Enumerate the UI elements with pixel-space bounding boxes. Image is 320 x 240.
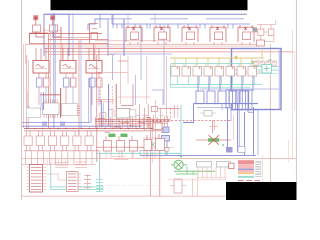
wire yellow drop U45 <box>229 58 231 67</box>
page right border <box>295 0 297 200</box>
wire VCC rail top y46 <box>45 45 259 47</box>
driver cell Q13 box <box>130 141 138 152</box>
label text bottom left <box>55 162 68 164</box>
bus ribbon line 3 <box>232 90 234 109</box>
wire mesh drop 10 <box>127 113 129 128</box>
wire teal inner y70 <box>250 69 279 71</box>
driver cell U5 frame <box>210 26 226 28</box>
wire mesh drop 8 <box>118 108 120 128</box>
pin dot U40 <box>177 67 179 69</box>
wire pale y147 <box>140 147 174 149</box>
wire rail y158 <box>22 157 296 159</box>
wire teal y63 <box>171 63 258 65</box>
component box Q20 <box>253 28 258 33</box>
wire mesh stub 6 <box>143 115 149 117</box>
wire j1 to j2 <box>46 174 67 180</box>
component box U4 <box>187 32 195 40</box>
driver cell Q6 pins <box>37 131 39 136</box>
wire dotted pink y185 <box>104 185 158 187</box>
bus ribbon line 1 <box>225 90 227 109</box>
wire yellow drop U42 <box>196 58 198 67</box>
wire loop h37 <box>52 37 89 39</box>
connector box J12 <box>218 91 226 104</box>
wire mesh drop 1 <box>95 117 97 128</box>
wire mesh drop 18 <box>153 115 155 128</box>
bus red y131 <box>24 130 168 132</box>
sheet edge pale x73 <box>72 13 74 52</box>
bus blue y155 <box>140 154 256 156</box>
bus blue staircase segments <box>96 18 132 20</box>
wire bus drop 8 <box>177 24 179 29</box>
wire bus drop 12 <box>227 24 229 29</box>
wire teal x100 vertical <box>99 153 101 179</box>
wire mesh drop 15 <box>143 117 145 128</box>
wire red verticals x174 <box>173 105 175 118</box>
logic gate U42 <box>193 67 202 77</box>
component box U5 <box>215 32 223 40</box>
wire cell U5 bottom <box>213 42 215 45</box>
box blue B1 partial <box>140 150 166 155</box>
wire rail y196 <box>22 195 226 197</box>
wire drop rail 9 <box>73 151 75 165</box>
wire teal tick U46 <box>238 64 240 67</box>
relay box small gray <box>204 111 212 117</box>
wire teal drop U41 <box>188 76 190 85</box>
component box U6 <box>243 32 251 40</box>
wire yellow drop U44 <box>218 58 220 67</box>
yellow diamond node <box>234 55 239 60</box>
motor M1 circle <box>174 160 183 169</box>
relay K3 box <box>86 61 102 74</box>
relay K1 pins <box>35 48 37 60</box>
legend swatch white <box>238 174 254 176</box>
pin dot U46 <box>243 67 245 69</box>
resistor R2 <box>64 78 70 87</box>
wire mesh drop 2 <box>98 113 100 128</box>
bus ribbon line 7 <box>245 90 247 109</box>
wire blue x101 long <box>100 100 102 127</box>
wire mesh drop 12 <box>132 117 134 128</box>
wire pale y179 <box>168 179 226 181</box>
wire dashed net v171 <box>170 108 172 120</box>
wire teal tick U42 <box>194 64 196 67</box>
bus ribbon line 9 <box>251 90 253 109</box>
bus blue y103 <box>194 103 259 105</box>
sheet edge blue x54 <box>53 13 55 128</box>
wire loop h30 <box>45 30 63 32</box>
driver cell U6 frame <box>238 26 254 28</box>
wire vertical net x294 <box>294 52 296 110</box>
wire drop rail 3 <box>37 151 39 165</box>
red rect left <box>30 33 49 43</box>
wire blue drop 5 <box>241 76 243 91</box>
wire net h72 <box>97 71 128 73</box>
relay K2 coil <box>63 65 71 68</box>
wire VCC rail top y44 <box>26 43 258 45</box>
driver cell Q5 box <box>24 136 32 146</box>
bus blue y126 <box>22 125 142 127</box>
cell group right x144-168 <box>144 140 152 151</box>
wire teal drop U44 <box>221 76 223 85</box>
wire cell C2 drops <box>65 73 67 78</box>
wire mesh extra h segs <box>98 118 105 120</box>
wire teal h186 <box>51 186 104 188</box>
wire drop rail r4 <box>132 151 134 158</box>
wire cell U4 bottom <box>185 42 187 45</box>
sheet block S3 outline <box>232 49 282 110</box>
wire teal x181 vertical <box>180 105 182 157</box>
ic U6 <box>62 104 78 116</box>
wire red edge x60 <box>60 88 62 118</box>
wire net h97 <box>116 96 150 98</box>
transistor pair box Q21 <box>258 29 264 36</box>
wire net x97 <box>96 55 98 162</box>
green plus mark <box>251 61 254 64</box>
wire blue x103 <box>102 103 104 127</box>
component box R30 <box>174 179 182 193</box>
ic U6 pins <box>78 105 81 107</box>
green dash mark <box>269 59 272 61</box>
wire teal bottom run <box>50 163 52 190</box>
wire blue drop 4 <box>230 76 232 91</box>
legend caption marks <box>238 180 244 182</box>
wire teal left riser <box>169 64 171 87</box>
wire cell U3 bottom <box>157 42 159 45</box>
wire vertical pair x61 <box>60 44 62 61</box>
power flag F1 <box>33 15 38 20</box>
redaction bar top <box>51 0 248 10</box>
driver cell U2 frame <box>126 26 142 28</box>
wire drop rail 5 <box>49 151 51 165</box>
pin marks U4 <box>189 27 191 30</box>
wire vertical net x288 <box>287 140 289 162</box>
wire red right stub h108 <box>152 107 180 109</box>
wire teal tick U40 <box>172 64 174 67</box>
wire net x128 <box>127 56 129 84</box>
wire vertical net x150 <box>149 118 151 196</box>
wire blue x244 <box>244 112 246 155</box>
wire blue x237 long <box>237 103 239 152</box>
driver cell Q9 box <box>73 136 81 146</box>
green dot net <box>222 144 224 146</box>
wire crystal arms <box>196 139 208 141</box>
wire net x113 blue <box>112 55 114 80</box>
wire teal drop U42 <box>199 76 201 85</box>
bus yellow y58 <box>170 57 264 59</box>
component red mini A <box>233 70 238 74</box>
wire blue drop 3 <box>219 76 221 91</box>
wire cell C3 drops <box>91 73 93 78</box>
wire teal drop U45 <box>232 76 234 85</box>
wire GND rail y48 <box>45 47 233 49</box>
wire blue drop 2 <box>208 76 210 91</box>
wire loop cell A1 <box>36 27 44 37</box>
legend swatch purple <box>238 169 254 170</box>
wire pink verticals bottom <box>192 178 194 196</box>
legend text column <box>255 160 261 162</box>
wire dashed x100 <box>99 80 101 104</box>
driver cell Q10 box <box>85 136 93 146</box>
wire relay row link <box>24 150 100 152</box>
wire bus drop 10 <box>199 24 201 29</box>
wire teal y153 <box>97 152 181 154</box>
legend swatch yellow <box>238 172 254 174</box>
connector J2 body <box>67 172 79 192</box>
logic gate U41 <box>182 67 191 77</box>
wire net x135 blue <box>135 75 137 105</box>
connector box J20 <box>238 147 245 153</box>
wire red corner left <box>27 92 30 107</box>
driver cell Q11 box <box>104 141 112 152</box>
wire green y174 <box>176 173 198 175</box>
driver cell Q7 pins <box>50 131 52 136</box>
relay K1 coil <box>36 65 44 68</box>
green cross small <box>151 143 156 147</box>
legend swatch rose <box>238 170 254 172</box>
wire teal tick U45 <box>227 64 229 67</box>
wire rail y54 <box>48 54 115 56</box>
junction dots mesh <box>98 121 99 122</box>
connector box J11 <box>207 91 215 104</box>
pin marks U2 <box>133 27 135 30</box>
wire teal tick U43 <box>205 64 207 67</box>
component box R31 <box>229 163 235 169</box>
component box blue B2 <box>163 127 169 133</box>
wire rail y40 <box>95 40 170 42</box>
label text cluster 2 <box>75 161 87 163</box>
driver cell Q12 box <box>117 141 125 152</box>
wire drop rail r2 <box>110 151 112 158</box>
bus ribbon line 5 <box>238 90 240 109</box>
wire red inner y72 <box>248 71 262 73</box>
wire bus drop 11 <box>204 24 206 29</box>
connector box J13 <box>229 91 237 104</box>
wire mesh drop 19 <box>156 117 158 128</box>
wire blue pair x88 <box>88 78 90 123</box>
ic U7 redraw <box>117 109 130 119</box>
wire red x116 <box>115 84 117 109</box>
wire dashed net h120 <box>152 119 231 121</box>
wire left column x27 <box>23 44 25 128</box>
resistor R10 <box>44 78 50 87</box>
crystal Y1 body <box>208 138 219 141</box>
wire mesh h125 <box>96 124 150 126</box>
pin marks U3 <box>161 27 163 30</box>
wire teal tick U47 <box>249 64 251 67</box>
wire teal right patch <box>252 60 258 75</box>
wire teal tick U41 <box>183 64 185 67</box>
wire h164 left <box>22 163 96 165</box>
wire mesh drop 22 <box>167 116 169 128</box>
wire blue thick x124 <box>123 19 125 56</box>
wire drop rail r5 <box>143 151 145 158</box>
logic gate U46 <box>237 67 246 77</box>
wire loop cell A2 <box>53 27 61 37</box>
ic U5 <box>43 103 60 115</box>
redaction bar bottom right <box>226 182 296 200</box>
label box L2 <box>217 162 231 168</box>
driver cell Q7 box <box>48 136 56 146</box>
wire mesh drop 13 <box>135 117 137 128</box>
bus red y128 <box>24 127 168 129</box>
resistor R11 <box>71 78 77 87</box>
wire vertical net x270 <box>269 44 271 182</box>
wire bus drop 2 <box>121 24 123 29</box>
wire rail y43 <box>30 43 109 45</box>
connector box J14 <box>240 91 248 104</box>
wire teal drop U47 <box>254 76 256 85</box>
wire red over U7 <box>96 99 114 101</box>
wire blue drop 6 <box>252 76 254 91</box>
sheet block S1 outline <box>44 14 69 56</box>
wire yellow drop U43 <box>207 58 209 67</box>
wire teal inner y66 <box>252 66 279 68</box>
wire mesh h123 <box>98 123 168 125</box>
ic U5 pins <box>43 115 45 119</box>
logic gate U44 <box>215 67 224 77</box>
wire blue x167 down <box>166 141 168 155</box>
pin dot U47 <box>254 67 256 69</box>
wire drop rail 7 <box>61 151 63 165</box>
wire net x163 <box>166 56 168 118</box>
bus blue top y14 <box>44 13 247 15</box>
sheet S3 right edge inner <box>278 50 280 109</box>
wire teal y87 <box>170 86 250 88</box>
wire net x120 <box>119 55 121 104</box>
wire mesh drop 11 <box>129 108 131 128</box>
component box U2 <box>131 32 139 40</box>
connector box J10 <box>196 91 204 104</box>
wire drop rail 11 <box>85 151 87 165</box>
label box L1 <box>197 162 212 168</box>
relay K3 pins <box>88 48 90 60</box>
driver cell Q5 pins <box>25 131 27 136</box>
bus yellow vertical x262 <box>261 49 263 59</box>
pin dot U41 <box>188 67 190 69</box>
wire top-left mesh h34 <box>30 33 103 35</box>
wire drop rail r6 <box>154 151 156 158</box>
driver cell Q13 pins <box>105 136 107 141</box>
driver cell Q8 box <box>61 136 69 146</box>
bus blue y89 <box>200 88 279 90</box>
wire yellow drop U41 <box>185 58 187 67</box>
wire bus drop 3 <box>134 24 136 29</box>
wire cell U2 bottom <box>129 42 131 45</box>
wire yellow drop U46 <box>240 58 242 67</box>
wire drop rail 8 <box>67 151 69 165</box>
driver cell U3 frame <box>154 26 170 28</box>
component box blue B3 <box>162 136 170 142</box>
wire dense drops x44-68 <box>43 158 45 164</box>
component red mini B <box>241 70 246 74</box>
resistor R3 <box>90 78 96 87</box>
wire drop rail r1 <box>99 151 101 158</box>
wire blue x258 long <box>257 110 259 156</box>
ic U7 <box>117 109 130 119</box>
wire top-left vertical x48 <box>48 33 50 128</box>
wire red top rail U5 <box>40 94 61 96</box>
bus blue y107 <box>197 107 231 109</box>
junction green x181 <box>180 156 182 158</box>
wire rail y52 <box>45 51 295 53</box>
legend swatch teal <box>238 176 254 178</box>
wire drop rail 2 <box>31 151 33 165</box>
wire mesh drop 7 <box>115 117 117 128</box>
logic gate U43 <box>204 67 213 77</box>
wire mesh stub 2 <box>109 109 113 111</box>
bus ribbon line 8 <box>248 90 250 109</box>
legend swatch red <box>238 160 254 164</box>
wire blue pair x41 <box>40 92 42 110</box>
relay K3 coil <box>89 65 97 68</box>
bus blue riser x112 <box>112 14 250 24</box>
wire yellow drop U40 <box>174 58 176 67</box>
wire h147 mid <box>96 146 150 148</box>
connector J1 rungs <box>31 167 42 169</box>
wire mesh drop 9 <box>121 115 123 128</box>
wire drop rail 10 <box>79 151 81 165</box>
relay K2 box <box>60 61 76 74</box>
wire drop rail 1 <box>25 151 27 165</box>
wire bus drop 13 <box>232 24 234 29</box>
wire mesh drop 16 <box>146 117 148 128</box>
wire mesh drop 17 <box>149 117 151 128</box>
logic gate U45 <box>226 67 235 77</box>
component box U3 <box>159 32 167 40</box>
wire mesh drop 4 <box>105 113 107 128</box>
wire teal drop U46 <box>243 76 245 85</box>
wire mesh stub 7 <box>151 106 155 108</box>
wire teal drop U43 <box>210 76 212 85</box>
connector J2 rungs <box>68 173 77 175</box>
wire mesh stub 8 <box>160 115 164 117</box>
wire net x147 <box>146 56 148 104</box>
label text mid marks <box>112 156 126 158</box>
wire blue x109 <box>108 84 110 127</box>
page left border <box>21 0 23 200</box>
wire pale x262 <box>262 155 264 182</box>
wire mesh verticals x138-148 <box>139 104 141 128</box>
bus ribbon line 4 <box>235 90 237 109</box>
wire mesh h121 <box>95 120 170 122</box>
ic U7 tab <box>130 110 136 117</box>
wire teal tick U44 <box>216 64 218 67</box>
led bar DS2 <box>121 134 128 137</box>
bus blue y122 <box>22 122 90 124</box>
wire bus drop 1 <box>116 24 118 29</box>
legend swatch pink <box>238 164 254 168</box>
pin dot U45 <box>232 67 234 69</box>
wire mesh stub 3 <box>117 109 121 111</box>
resistor R1 <box>37 78 43 87</box>
wire red x155 long <box>154 100 156 140</box>
wire mesh drop 3 <box>101 115 103 128</box>
driver cell Q10 pins <box>86 131 88 136</box>
logic gate U47 <box>248 67 257 77</box>
wire mesh drop 20 <box>160 108 162 128</box>
component box R40 <box>153 123 162 130</box>
component boxes small brown <box>160 146 165 149</box>
ic U7 pins <box>114 109 117 111</box>
wire drop rail 12 <box>91 151 93 165</box>
wire dashed x112 <box>111 86 113 106</box>
wire teal drop U40 <box>177 76 179 85</box>
wire bus drop 6 <box>159 24 161 29</box>
ferrite box L1 <box>226 147 233 153</box>
wire blue stub x222 <box>221 104 223 110</box>
connector J3 teal comb <box>96 179 103 181</box>
relay K2 pins <box>62 48 64 60</box>
